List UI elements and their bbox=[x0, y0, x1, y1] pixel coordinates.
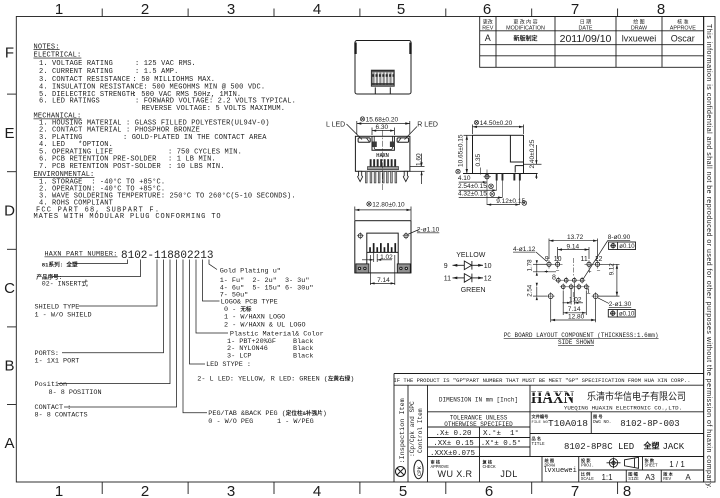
svg-text:1.78: 1.78 bbox=[527, 259, 534, 272]
svg-text:2.40±0.25: 2.40±0.25 bbox=[529, 139, 536, 168]
svg-text:3: 3 bbox=[227, 483, 235, 498]
svg-text:1 - W/O SHIELD: 1 - W/O SHIELD bbox=[35, 312, 92, 320]
svg-text:REV: REV bbox=[482, 25, 493, 31]
dim 13.72 bbox=[549, 239, 598, 260]
svg-text:MODIFICATION: MODIFICATION bbox=[506, 25, 545, 31]
svg-text:10: 10 bbox=[554, 256, 562, 263]
svg-text:+: + bbox=[544, 269, 548, 276]
svg-text:CHECK: CHECK bbox=[483, 465, 497, 470]
outline bbox=[355, 221, 411, 273]
svg-text:新版制定: 新版制定 bbox=[513, 35, 537, 43]
svg-text:ø0.10: ø0.10 bbox=[619, 312, 635, 318]
svg-text:JDL: JDL bbox=[500, 469, 517, 479]
svg-text:APPROVE: APPROVE bbox=[670, 25, 696, 31]
svg-text:NOTES:: NOTES: bbox=[34, 43, 60, 51]
svg-text:SCALE: SCALE bbox=[581, 477, 595, 482]
svg-text:12: 12 bbox=[595, 256, 603, 263]
svg-text:8-ø0.90: 8-ø0.90 bbox=[608, 234, 631, 241]
svg-text:.X°± 0.5°: .X°± 0.5° bbox=[481, 439, 522, 448]
front view bbox=[0, 0, 1, 1]
bottom 2 holes bbox=[548, 294, 598, 299]
svg-text:4: 4 bbox=[313, 1, 321, 18]
svg-text:1 - W/HAXN LOGO: 1 - W/HAXN LOGO bbox=[224, 314, 285, 322]
centerline bbox=[573, 258, 575, 276]
body profile bbox=[473, 135, 524, 173]
svg-text:全塑: 全塑 bbox=[643, 441, 660, 451]
svg-text:MATES WITH MODULAR PLUG CONFOR: MATES WITH MODULAR PLUG CONFORMING TO bbox=[34, 213, 222, 221]
svg-text:图 号: 图 号 bbox=[593, 413, 603, 420]
svg-text:6: 6 bbox=[485, 483, 493, 498]
svg-text:+: + bbox=[588, 269, 592, 276]
svg-text:6: 6 bbox=[483, 1, 491, 18]
diode YELLOW pins 9-10 bbox=[453, 261, 484, 270]
part number section bbox=[35, 250, 355, 426]
svg-text:SHIELD TYPE: SHIELD TYPE bbox=[35, 304, 80, 312]
svg-text:5: 5 bbox=[399, 483, 407, 498]
svg-text:ELECTRICAL:: ELECTRICAL: bbox=[34, 52, 82, 60]
pins bbox=[365, 171, 396, 183]
svg-text:SIZE: SIZE bbox=[628, 477, 639, 482]
svg-text:7.14: 7.14 bbox=[568, 306, 581, 313]
svg-text:13.72: 13.72 bbox=[567, 234, 584, 241]
svg-text:.XX± 0.15: .XX± 0.15 bbox=[433, 440, 474, 448]
svg-text:乐清市华信电子有限公司: 乐清市华信电子有限公司 bbox=[587, 390, 686, 403]
dim 9.14 bbox=[558, 247, 589, 259]
svg-text:8102-118802213: 8102-118802213 bbox=[121, 250, 213, 262]
title row bbox=[532, 435, 685, 452]
svg-text:C: C bbox=[4, 280, 15, 297]
svg-text:7.14: 7.14 bbox=[377, 277, 390, 284]
svg-text:Black: Black bbox=[293, 352, 313, 360]
svg-text:B: B bbox=[4, 358, 14, 375]
svg-text:CPK: CPK bbox=[416, 465, 423, 476]
tolerance box 2 bbox=[608, 310, 635, 318]
proj cell + third angle symbol bbox=[581, 457, 594, 469]
svg-text:10: 10 bbox=[484, 263, 492, 270]
svg-text:2-ø1.10: 2-ø1.10 bbox=[417, 227, 440, 234]
svg-text:SHEET: SHEET bbox=[645, 464, 659, 469]
svg-text:YELLOW: YELLOW bbox=[456, 252, 486, 259]
pins bbox=[496, 174, 521, 181]
dim 1.78 bbox=[533, 264, 556, 272]
svg-text:HAXN PART NUMBER:: HAXN PART NUMBER: bbox=[45, 251, 118, 259]
svg-text:4.10: 4.10 bbox=[458, 175, 471, 182]
svg-text:A: A bbox=[4, 435, 14, 452]
svg-text:: 125 VAC RMS.: : 125 VAC RMS. bbox=[135, 60, 196, 68]
front view bbox=[326, 116, 438, 190]
svg-text:10.65±0.15: 10.65±0.15 bbox=[457, 134, 464, 167]
svg-text:2 - W/HAXN & UL LOGO: 2 - W/HAXN & UL LOGO bbox=[224, 322, 306, 330]
svg-text:ø0.10: ø0.10 bbox=[619, 244, 635, 250]
centerline bbox=[382, 130, 384, 190]
svg-text:PC BOARD LAYOUT COMPONENT (THI: PC BOARD LAYOUT COMPONENT (THICKNESS:1.6… bbox=[504, 332, 659, 339]
svg-text:YUEQING HUAXIN ELECTRONIC CO.,: YUEQING HUAXIN ELECTRONIC CO.,LTD. bbox=[564, 404, 682, 411]
svg-text:1: 1 bbox=[587, 289, 591, 296]
svg-text:81系列: 全塑: 81系列: 全塑 bbox=[42, 261, 78, 269]
tolerance box 1 bbox=[609, 242, 636, 250]
top view bbox=[355, 41, 411, 95]
svg-text:Position: Position bbox=[35, 381, 68, 389]
svg-text:8102-8P8C LED: 8102-8P8C LED bbox=[564, 442, 634, 452]
LED pin bbox=[485, 174, 489, 179]
svg-text:DATE: DATE bbox=[579, 25, 593, 31]
svg-text:TITLE: TITLE bbox=[532, 442, 546, 447]
pcb layout bbox=[504, 234, 659, 346]
svg-text:1: 1 bbox=[55, 483, 63, 498]
contacts bbox=[370, 159, 396, 166]
dim 15.68 bbox=[357, 121, 410, 135]
inspection item column bbox=[396, 467, 406, 477]
svg-text:PROJ.: PROJ. bbox=[581, 464, 594, 469]
svg-text:DWG NO.: DWG NO. bbox=[593, 420, 611, 425]
svg-text:0 - W/O PEG: 0 - W/O PEG bbox=[208, 418, 253, 426]
dim 12.80 bbox=[367, 202, 371, 206]
approve/check/draw bbox=[431, 457, 577, 479]
svg-text:GREEN: GREEN bbox=[461, 287, 486, 294]
svg-text:.XXX±0.075: .XXX±0.075 bbox=[430, 450, 476, 458]
dim 2.40 bbox=[524, 145, 542, 179]
svg-text:: GOLD-PLATED IN THE CONTACT A: : GOLD-PLATED IN THE CONTACT AREA bbox=[123, 134, 267, 142]
svg-text:9: 9 bbox=[545, 256, 549, 263]
svg-text:R LED: R LED bbox=[417, 121, 438, 128]
sheet cell bbox=[581, 457, 692, 482]
svg-text:0.35: 0.35 bbox=[475, 153, 482, 166]
side posts bbox=[358, 171, 363, 181]
svg-text:11: 11 bbox=[581, 256, 588, 263]
diode GREEN pins 11-12 bbox=[453, 274, 484, 283]
svg-text:12: 12 bbox=[484, 276, 492, 283]
svg-text:2: 2 bbox=[141, 483, 149, 498]
svg-text:: 10 LBS MIN.: : 10 LBS MIN. bbox=[168, 163, 225, 171]
HAXN logo bbox=[531, 387, 574, 407]
svg-text:4: 4 bbox=[313, 483, 321, 498]
svg-text:9.12: 9.12 bbox=[609, 263, 616, 276]
svg-text:品 名: 品 名 bbox=[532, 435, 542, 442]
svg-text:7: 7 bbox=[571, 483, 579, 498]
svg-text::Cp/Cpk and SPC: :Cp/Cpk and SPC bbox=[409, 401, 416, 457]
svg-text:文件编号: 文件编号 bbox=[532, 413, 549, 420]
title block bbox=[393, 374, 703, 483]
svg-text:1 - W/PEG: 1 - W/PEG bbox=[277, 418, 314, 426]
dim 2.54 vertical bbox=[533, 287, 547, 296]
svg-text:SIDE SHOWN: SIDE SHOWN bbox=[558, 339, 594, 346]
svg-text:lvxuewei: lvxuewei bbox=[543, 467, 577, 475]
svg-text:0 - 无标: 0 - 无标 bbox=[224, 305, 252, 314]
svg-text:14.50±0.20: 14.50±0.20 bbox=[480, 120, 513, 127]
confidentiality strip bbox=[704, 17, 715, 490]
2-phi1.10 label bbox=[408, 230, 420, 235]
svg-text:IF THE PRODUCT IS "GP"PART NUM: IF THE PRODUCT IS "GP"PART NUMBER THAT M… bbox=[393, 377, 690, 384]
svg-text:−: − bbox=[556, 268, 560, 275]
dim 1.60 bbox=[410, 154, 425, 185]
dim 14.50 bbox=[473, 125, 524, 135]
revision table bbox=[480, 17, 704, 68]
svg-text:12.80±0.10: 12.80±0.10 bbox=[372, 202, 405, 209]
svg-text:1. VOLTAGE RATING: 1. VOLTAGE RATING bbox=[39, 60, 113, 68]
feet hatched bbox=[356, 264, 410, 273]
svg-text:4.32±0.15: 4.32±0.15 bbox=[458, 190, 487, 197]
dim 9.12 vertical bbox=[599, 264, 620, 296]
svg-text:WU X.R: WU X.R bbox=[438, 469, 473, 479]
svg-text:8: 8 bbox=[552, 274, 556, 281]
svg-text:A3: A3 bbox=[645, 473, 655, 482]
svg-text:1.60: 1.60 bbox=[415, 153, 422, 166]
svg-text:2.54: 2.54 bbox=[527, 284, 534, 297]
top view contact block bbox=[371, 70, 394, 86]
svg-text:2-ø1.30: 2-ø1.30 bbox=[609, 301, 632, 308]
svg-text:2. CURRENT RATING: 2. CURRENT RATING bbox=[39, 68, 113, 76]
svg-text:9: 9 bbox=[444, 263, 448, 270]
svg-text:.X± 0.20: .X± 0.20 bbox=[435, 430, 472, 438]
2 holes bbox=[358, 234, 408, 238]
svg-text:OTHERWISE SPECIFIED: OTHERWISE SPECIFIED bbox=[444, 421, 513, 428]
svg-text:5: 5 bbox=[397, 1, 405, 18]
pins inside cavity bbox=[369, 243, 396, 252]
svg-text:DIMENSION IN mm [Inch]: DIMENSION IN mm [Inch] bbox=[439, 396, 518, 403]
svg-text:JACK: JACK bbox=[663, 442, 685, 452]
svg-text:15.68±0.20: 15.68±0.20 bbox=[366, 116, 399, 123]
notes bbox=[34, 43, 296, 221]
svg-text:lvxuewei: lvxuewei bbox=[622, 34, 657, 44]
side view bbox=[456, 120, 542, 206]
tolerance bbox=[444, 414, 513, 428]
svg-text::Inspection Item: :Inspection Item bbox=[399, 398, 407, 463]
middle cluster 8 holes bbox=[556, 278, 588, 288]
svg-text:9.14: 9.14 bbox=[567, 243, 580, 250]
top holes 9 10 11 12 bbox=[547, 262, 600, 266]
svg-text:PEG/TAB &BACK PEG (定位柱&补强片): PEG/TAB &BACK PEG (定位柱&补强片) bbox=[208, 409, 327, 418]
svg-text:7. PCB RETENTION POST-SOLDER: 7. PCB RETENTION POST-SOLDER bbox=[39, 163, 161, 171]
svg-text:2011/09/10: 2011/09/10 bbox=[560, 33, 612, 45]
svg-text:02- INSERT式: 02- INSERT式 bbox=[42, 279, 89, 288]
svg-text:Oscar: Oscar bbox=[671, 34, 695, 44]
LED symbols bbox=[444, 252, 492, 294]
svg-text:6.30: 6.30 bbox=[376, 124, 389, 131]
svg-text:1:1: 1:1 bbox=[601, 473, 613, 482]
svg-text:2: 2 bbox=[141, 1, 149, 18]
svg-text:X.°± 1°: X.°± 1° bbox=[483, 429, 519, 438]
svg-text:8- 8 CONTACTS: 8- 8 CONTACTS bbox=[35, 412, 88, 420]
svg-text:A: A bbox=[485, 33, 491, 43]
svg-text:7: 7 bbox=[571, 1, 579, 18]
svg-text:1: 1 bbox=[55, 1, 63, 18]
svg-text:DRAW: DRAW bbox=[631, 25, 648, 31]
dim 10.65 bbox=[464, 135, 473, 173]
svg-text:2- L LED: YELLOW, R LED: GREEN: 2- L LED: YELLOW, R LED: GREEN (左黄右绿) bbox=[197, 375, 354, 384]
svg-text:−: − bbox=[597, 268, 601, 275]
svg-text:12.80: 12.80 bbox=[568, 313, 585, 320]
svg-text:REV: REV bbox=[663, 477, 671, 482]
svg-text:E: E bbox=[4, 125, 14, 142]
svg-text:2.54±0.15: 2.54±0.15 bbox=[458, 183, 487, 190]
cp/cpk column bbox=[414, 460, 423, 478]
svg-text:3: 3 bbox=[227, 1, 235, 18]
bottom view bbox=[355, 202, 440, 286]
svg-text:This information is confidenti: This information is confidential and sha… bbox=[705, 24, 712, 489]
svg-text:Gold Plating u": Gold Plating u" bbox=[220, 268, 281, 276]
svg-text:11: 11 bbox=[444, 276, 451, 283]
svg-text:REVERSE VOLTAGE: 5 VOLTS MAXIM: REVERSE VOLTAGE: 5 VOLTS MAXIMUM. bbox=[142, 105, 286, 113]
body bbox=[355, 136, 410, 171]
svg-text:Control Item: Control Item bbox=[417, 408, 424, 453]
svg-text:8102-8P-003: 8102-8P-003 bbox=[620, 419, 679, 429]
svg-text:1 / 1: 1 / 1 bbox=[669, 460, 685, 469]
bottom view bbox=[0, 0, 1, 1]
svg-text:3- LCP: 3- LCP bbox=[227, 352, 251, 360]
svg-text:LED STYPE :: LED STYPE : bbox=[206, 361, 251, 369]
caption bbox=[504, 332, 659, 346]
svg-text:F: F bbox=[5, 45, 14, 62]
svg-text:D: D bbox=[4, 203, 15, 220]
svg-text:4-ø1.12: 4-ø1.12 bbox=[513, 246, 536, 253]
svg-text:A: A bbox=[685, 473, 691, 482]
svg-text:8: 8 bbox=[623, 483, 631, 498]
file no / dwg no bbox=[532, 413, 680, 429]
svg-text:8- 8 POSITION: 8- 8 POSITION bbox=[49, 389, 102, 397]
svg-text:9.12±0.15: 9.12±0.15 bbox=[496, 198, 525, 205]
svg-text:1- 1X1 PORT: 1- 1X1 PORT bbox=[35, 358, 80, 366]
svg-text:8: 8 bbox=[657, 1, 665, 18]
svg-text:6. LED RATINGS: 6. LED RATINGS bbox=[39, 98, 100, 106]
svg-text:L LED: L LED bbox=[326, 121, 345, 128]
svg-text:T10A018: T10A018 bbox=[548, 418, 588, 429]
svg-text:: 1.5 AMP.: : 1.5 AMP. bbox=[135, 68, 179, 76]
